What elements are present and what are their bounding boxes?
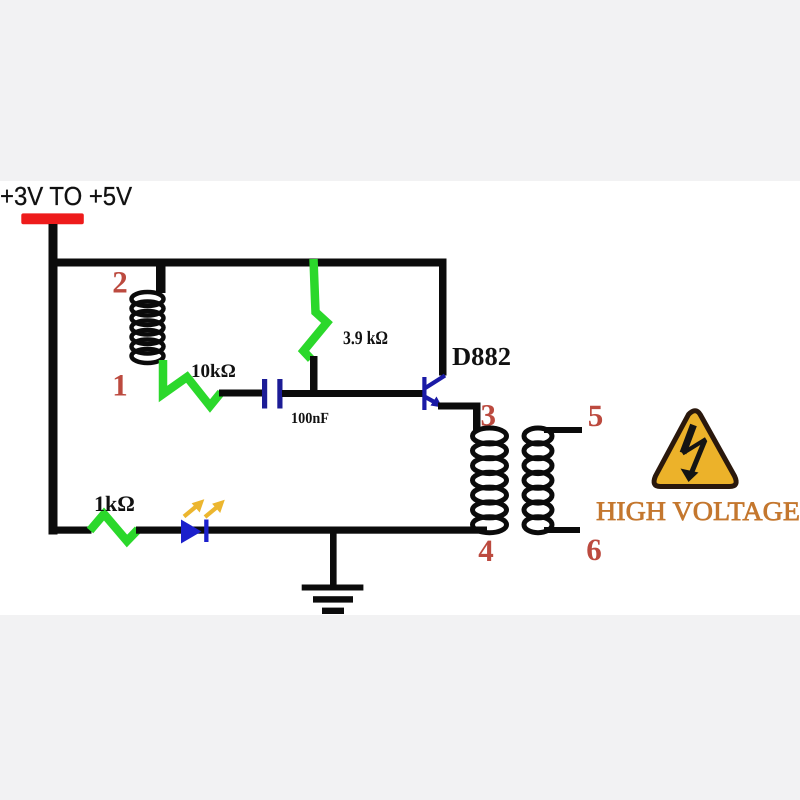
transformer T1 secondary winding (pins 5-6) [524, 428, 552, 533]
wire: bottom rail left segment [49, 527, 92, 534]
wire: R1 to capacitor [219, 390, 263, 397]
resistor R1 10kΩ (green zigzag) [163, 360, 221, 406]
svg-text:1kΩ: 1kΩ [94, 491, 135, 516]
svg-text:100nF: 100nF [291, 410, 329, 427]
svg-text:HIGH VOLTAGE: HIGH VOLTAGE [596, 496, 800, 526]
svg-text:6: 6 [586, 532, 602, 567]
transformer T1 primary winding (pins 3-4) [473, 428, 507, 533]
svg-text:10kΩ: 10kΩ [191, 361, 236, 382]
svg-text:5: 5 [588, 398, 604, 433]
LED D1 (blue) [181, 520, 202, 544]
high voltage warning triangle [654, 411, 736, 487]
wire: capacitor to base [282, 390, 423, 397]
svg-text:2: 2 [112, 264, 128, 299]
lightning bolt [681, 425, 707, 482]
wire: R2 lead to base wire [310, 356, 318, 397]
wire: bottom rail right segment [136, 527, 487, 534]
svg-text:1: 1 [112, 367, 128, 402]
svg-text:3.9 kΩ: 3.9 kΩ [343, 328, 388, 349]
svg-text:4: 4 [478, 533, 494, 568]
wire: top rail [49, 259, 447, 267]
inductor L1 (feedback coil, pins 1-2) [132, 292, 164, 363]
LED emission arrow 1 [184, 500, 204, 517]
resistor R2 3.9kΩ (green zigzag) [304, 259, 328, 359]
wire: secondary bottom lead (pin 6) [544, 527, 580, 533]
resistor R3 1kΩ (green zigzag) [90, 514, 138, 541]
wire: stub to coil pin 2 [156, 262, 166, 293]
svg-text:+3V TO +5V: +3V TO +5V [0, 182, 132, 211]
wire: emitter to transformer primary [438, 403, 481, 410]
capacitor C1 100nF [262, 379, 267, 409]
supply terminal red bar [21, 213, 84, 224]
wire: right vertical (rail to collector) [439, 259, 447, 376]
wire: secondary top lead (pin 5) [544, 427, 582, 433]
svg-text:D882: D882 [452, 342, 511, 371]
ground [302, 530, 364, 614]
bottom gray band [0, 615, 800, 800]
wire: left vertical (supply to bottom rail) [49, 224, 58, 535]
LED emission arrow 2 [205, 501, 224, 518]
top gray band [0, 0, 800, 181]
transistor Q1 D882 [422, 376, 445, 411]
